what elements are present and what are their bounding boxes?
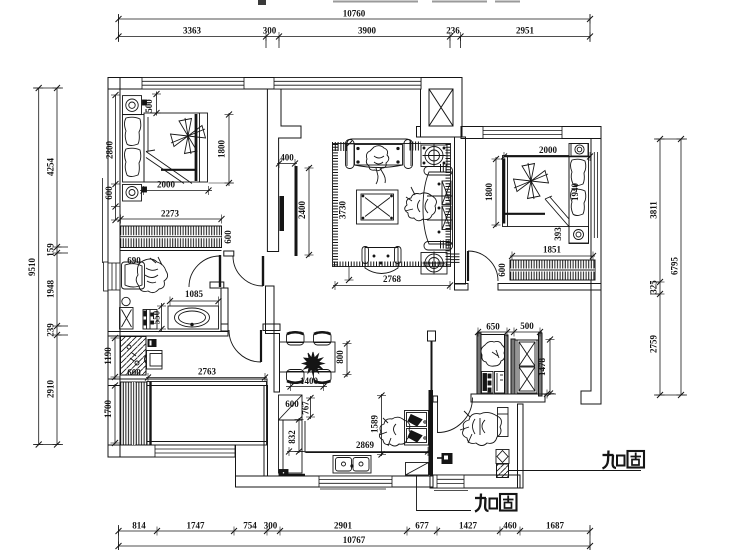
bath BR bottom wall <box>430 475 520 488</box>
hatched side posts <box>332 146 455 264</box>
black fixture <box>442 453 453 464</box>
bed1 body <box>144 113 208 182</box>
right-top wall band <box>461 127 601 139</box>
2768 dashed dim <box>333 285 451 287</box>
misc tick right of bath wall <box>538 393 556 395</box>
right sofa <box>423 167 453 251</box>
bottom-left room top wall <box>108 379 267 386</box>
svg-text:393: 393 <box>553 227 563 241</box>
glyphs 加固 #2 <box>475 494 517 512</box>
svg-text:1687: 1687 <box>546 521 565 531</box>
loveseat top <box>346 139 413 169</box>
svg-text:677: 677 <box>415 521 429 531</box>
svg-text:300: 300 <box>264 521 278 531</box>
bedroom1 right wall with niche step <box>267 89 301 252</box>
svg-text:2951: 2951 <box>516 26 535 36</box>
svg-text:690: 690 <box>127 256 141 266</box>
night tables <box>571 144 588 157</box>
svg-text:2400: 2400 <box>297 201 307 220</box>
400 dim <box>277 163 297 165</box>
svg-text:1747: 1747 <box>187 521 206 531</box>
door arc <box>438 398 473 433</box>
coffee table <box>357 190 399 224</box>
figure lying on sofa <box>405 187 437 221</box>
left wall bathroom window + outer sill <box>104 262 109 291</box>
bedroom2 bottom wall <box>455 284 469 291</box>
quilt pinwheel <box>514 164 549 199</box>
quilt pinwheel <box>171 119 206 154</box>
svg-text:600: 600 <box>104 186 114 200</box>
svg-text:4254: 4254 <box>46 158 56 177</box>
TV on wall <box>280 196 285 231</box>
armchair + person figure <box>122 257 168 293</box>
bottom-left room window <box>155 445 235 457</box>
svg-text:1948: 1948 <box>46 280 56 299</box>
bedroom1 top window <box>142 78 244 90</box>
svg-text:3363: 3363 <box>183 26 202 36</box>
headboard band + pillows <box>569 144 589 244</box>
svg-text:2901: 2901 <box>334 521 353 531</box>
bedroom2 right wall window hint <box>593 152 595 238</box>
bathroom bottom band <box>108 332 228 337</box>
1478 dim <box>549 338 551 395</box>
svg-text:10760: 10760 <box>343 9 366 19</box>
bottom-left bottom wall band <box>108 445 236 457</box>
svg-text:325: 325 <box>649 280 659 294</box>
top total dim line 10760 <box>119 14 591 48</box>
svg-text:1800: 1800 <box>217 140 227 159</box>
fridge niche <box>481 341 505 393</box>
svg-text:600: 600 <box>285 399 299 409</box>
svg-text:800: 800 <box>335 350 345 364</box>
kitchen hatched box <box>406 463 429 476</box>
svg-text:6795: 6795 <box>670 257 680 276</box>
固 <box>628 451 645 468</box>
outer top wall band <box>108 78 421 90</box>
svg-text:500: 500 <box>520 321 534 331</box>
svg-text:1085: 1085 <box>185 289 204 299</box>
1700 dim <box>114 384 116 444</box>
svg-text:832: 832 <box>287 430 297 444</box>
tall cabinet XX <box>517 340 537 393</box>
1589 dim <box>381 394 383 456</box>
svg-text:159: 159 <box>46 243 56 257</box>
bedroom2 door <box>468 251 498 281</box>
550 dim <box>161 303 163 331</box>
650/500 dims <box>477 331 542 333</box>
bottom armchair <box>362 247 401 274</box>
partial clipped title text at very top <box>258 0 520 5</box>
bathroom door (leaf A) + bedroom1 door (leaf B) <box>189 255 263 287</box>
svg-text:2000: 2000 <box>157 180 176 190</box>
加 <box>475 497 486 499</box>
3730 dim <box>348 267 350 281</box>
svg-text:500: 500 <box>144 99 154 113</box>
svg-text:650: 650 <box>486 322 500 332</box>
svg-text:2869: 2869 <box>356 440 375 450</box>
dining west wall <box>274 334 280 393</box>
thick black partition kitchen/bath <box>429 390 434 475</box>
fold triangle <box>146 150 192 184</box>
kitchen bottom wall <box>236 476 434 487</box>
toilet <box>120 297 134 329</box>
svg-text:239: 239 <box>46 323 56 337</box>
chairs <box>287 332 332 383</box>
svg-text:236: 236 <box>446 26 460 36</box>
svg-text:1851: 1851 <box>543 245 562 255</box>
bottom dim lines 10767 <box>119 525 591 550</box>
right wall band <box>581 139 601 405</box>
wall stubs around bedroom1/bath doors <box>224 251 234 256</box>
corner tables <box>421 144 447 275</box>
svg-text:400: 400 <box>280 153 294 163</box>
1190 dim <box>114 337 116 379</box>
svg-text:600: 600 <box>127 368 141 378</box>
2869 dim <box>287 451 430 453</box>
pole line between dining and kitchen <box>431 341 433 390</box>
dining dims <box>346 341 348 377</box>
svg-text:2768: 2768 <box>383 274 402 284</box>
bedroom1 wardrobe <box>121 226 222 251</box>
toilet with person <box>460 408 508 446</box>
svg-text:2910: 2910 <box>46 380 56 399</box>
night table bottom <box>123 185 142 202</box>
svg-text:1700: 1700 <box>103 400 113 419</box>
svg-text:3730: 3730 <box>338 201 348 220</box>
living room top window <box>274 78 421 90</box>
svg-text:1427: 1427 <box>459 521 478 531</box>
svg-text:460: 460 <box>503 521 517 531</box>
bed2 body <box>503 156 570 227</box>
600 / 832 cabinet left of kitchen <box>279 395 306 476</box>
bottom-left room east wall <box>264 386 268 477</box>
固 <box>500 494 517 511</box>
svg-text:9510: 9510 <box>27 258 37 277</box>
svg-text:814: 814 <box>132 521 146 531</box>
washing box <box>143 310 157 330</box>
shoe cabinet diagonal <box>121 337 147 376</box>
rug with fringe <box>333 144 451 267</box>
cook figure <box>379 417 410 446</box>
1085 dim <box>170 300 219 302</box>
basin counter <box>168 306 219 329</box>
2763 dim <box>146 377 267 379</box>
svg-text:600: 600 <box>497 263 507 277</box>
svg-text:2000: 2000 <box>539 145 558 155</box>
svg-text:2800: 2800 <box>105 141 115 160</box>
bedroom2 top window <box>483 127 562 139</box>
svg-text:1190: 1190 <box>103 347 113 365</box>
svg-text:2759: 2759 <box>649 335 659 354</box>
basin diamond + heater <box>496 450 509 478</box>
glyphs 加固 #1 drawn as strokes <box>603 451 645 469</box>
bed1 headboard band + pillows <box>123 115 145 183</box>
figure on loveseat <box>366 146 388 184</box>
svg-text:2273: 2273 <box>161 209 180 219</box>
bath BR top wall <box>471 394 545 402</box>
2400 dim <box>308 166 310 257</box>
svg-text:1800: 1800 <box>484 183 494 202</box>
elevator shaft X box <box>429 89 453 126</box>
left wall band <box>108 78 120 458</box>
stove <box>405 411 429 446</box>
bathroom right wall <box>221 288 228 331</box>
svg-text:3900: 3900 <box>358 26 377 36</box>
bedroom2 left wall <box>455 137 466 284</box>
corridor/living west wall lower part <box>266 286 275 334</box>
kitchen fridge niche walls <box>477 333 481 394</box>
加 <box>603 454 614 456</box>
svg-text:767: 767 <box>301 401 311 415</box>
night table top <box>123 96 142 115</box>
leader 1 <box>509 470 641 472</box>
plant centerpiece <box>303 352 325 375</box>
svg-text:1478: 1478 <box>537 358 547 377</box>
svg-text:1940: 1940 <box>570 183 580 202</box>
elevator shaft walls <box>421 78 463 138</box>
wardrobe2 <box>510 260 595 280</box>
svg-text:10767: 10767 <box>343 535 366 545</box>
svg-text:1400: 1400 <box>300 376 319 386</box>
svg-text:3811: 3811 <box>649 201 659 219</box>
svg-text:550: 550 <box>152 310 162 324</box>
small black item + desk <box>148 339 157 347</box>
left dim lines 9510 <box>33 88 68 445</box>
svg-text:600: 600 <box>223 230 233 244</box>
leader 2 <box>417 476 472 511</box>
bottom counter + sink <box>305 421 429 473</box>
svg-text:2763: 2763 <box>198 367 217 377</box>
right dim lines 6795 <box>650 139 687 395</box>
bedroom1 dims <box>103 92 235 264</box>
bath BR window <box>437 475 464 488</box>
svg-text:754: 754 <box>243 521 257 531</box>
bath BR right wall <box>518 404 524 488</box>
bed2 dims <box>504 156 590 158</box>
svg-text:1589: 1589 <box>370 415 380 434</box>
svg-text:300: 300 <box>263 26 277 36</box>
hall-dining door arc <box>229 330 261 362</box>
kitchen bottom window <box>319 476 392 487</box>
fold <box>545 196 569 226</box>
